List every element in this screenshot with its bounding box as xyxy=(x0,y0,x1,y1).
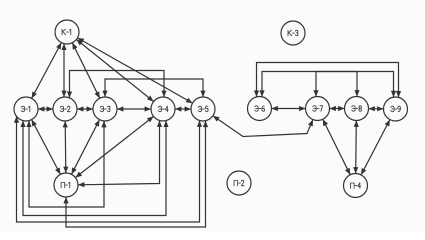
edge Э-3 – П-1 xyxy=(72,120,100,175)
edge Э-1 – Э-3 routed bottom xyxy=(26,121,106,207)
edge Э-9 – П-4 xyxy=(361,120,390,175)
node Э-7 xyxy=(306,97,330,121)
edge Э-7 – Э-8 xyxy=(330,106,345,111)
edge Э-6 – Э-8 routed top xyxy=(259,72,359,97)
edge Э-8 – Э-9 xyxy=(369,106,384,111)
node П-4 xyxy=(344,174,368,198)
edge К-1 – Э-4 xyxy=(76,40,153,102)
node Э-2 xyxy=(53,97,77,121)
edge Э-2 – П-1 xyxy=(63,121,69,173)
node Э-8 xyxy=(345,97,369,121)
edge Э-7 – П-4 xyxy=(323,119,350,174)
edge К-1 – Э-2 xyxy=(61,44,66,97)
edge Э-3 – Э-4 xyxy=(117,106,151,111)
edge К-1 – Э-3 xyxy=(72,43,99,98)
edge Э-1 – П-1 xyxy=(32,120,61,175)
node Э-4 xyxy=(151,97,175,121)
edge Э-4 – Э-5 xyxy=(175,106,191,111)
node Э-6 xyxy=(248,97,272,121)
edge К-1 – Э-1 xyxy=(32,43,62,99)
node П-1 xyxy=(54,173,78,197)
edge Э-4 – П-1 routed xyxy=(78,121,162,188)
edge Э-6 – Э-9 routed top xyxy=(254,63,401,98)
node Э-3 xyxy=(93,97,117,121)
node К-3 xyxy=(281,21,305,45)
node Э-9 xyxy=(384,97,408,121)
edge Э-4 – П-1 diagonal xyxy=(75,116,153,177)
node К-1 xyxy=(55,20,79,44)
edge Э-1 – Э-4 routed bottom xyxy=(20,121,168,216)
edge Э-7 – Э-9 routed top xyxy=(313,72,396,98)
edge Э-6 – Э-7 xyxy=(272,106,306,111)
edge П-1 – Э-5 routed bottom xyxy=(63,121,208,227)
edge Э-5 – Э-7 xyxy=(213,116,313,137)
edge Э-2 – Э-3 xyxy=(77,106,93,111)
edge К-1 – Э-5 xyxy=(77,38,192,103)
node Э-5 xyxy=(191,97,215,121)
edge Э-1 – Э-5 routed bottom xyxy=(14,116,202,222)
edge Э-3 – Э-5 routed top xyxy=(102,79,205,97)
edge Э-8 – П-4 xyxy=(353,121,359,174)
node П-2 xyxy=(227,171,251,195)
edge Э-2 – Э-4 routed top xyxy=(67,71,167,98)
node Э-1 xyxy=(14,97,38,121)
edge Э-1 – Э-2 xyxy=(38,106,53,111)
